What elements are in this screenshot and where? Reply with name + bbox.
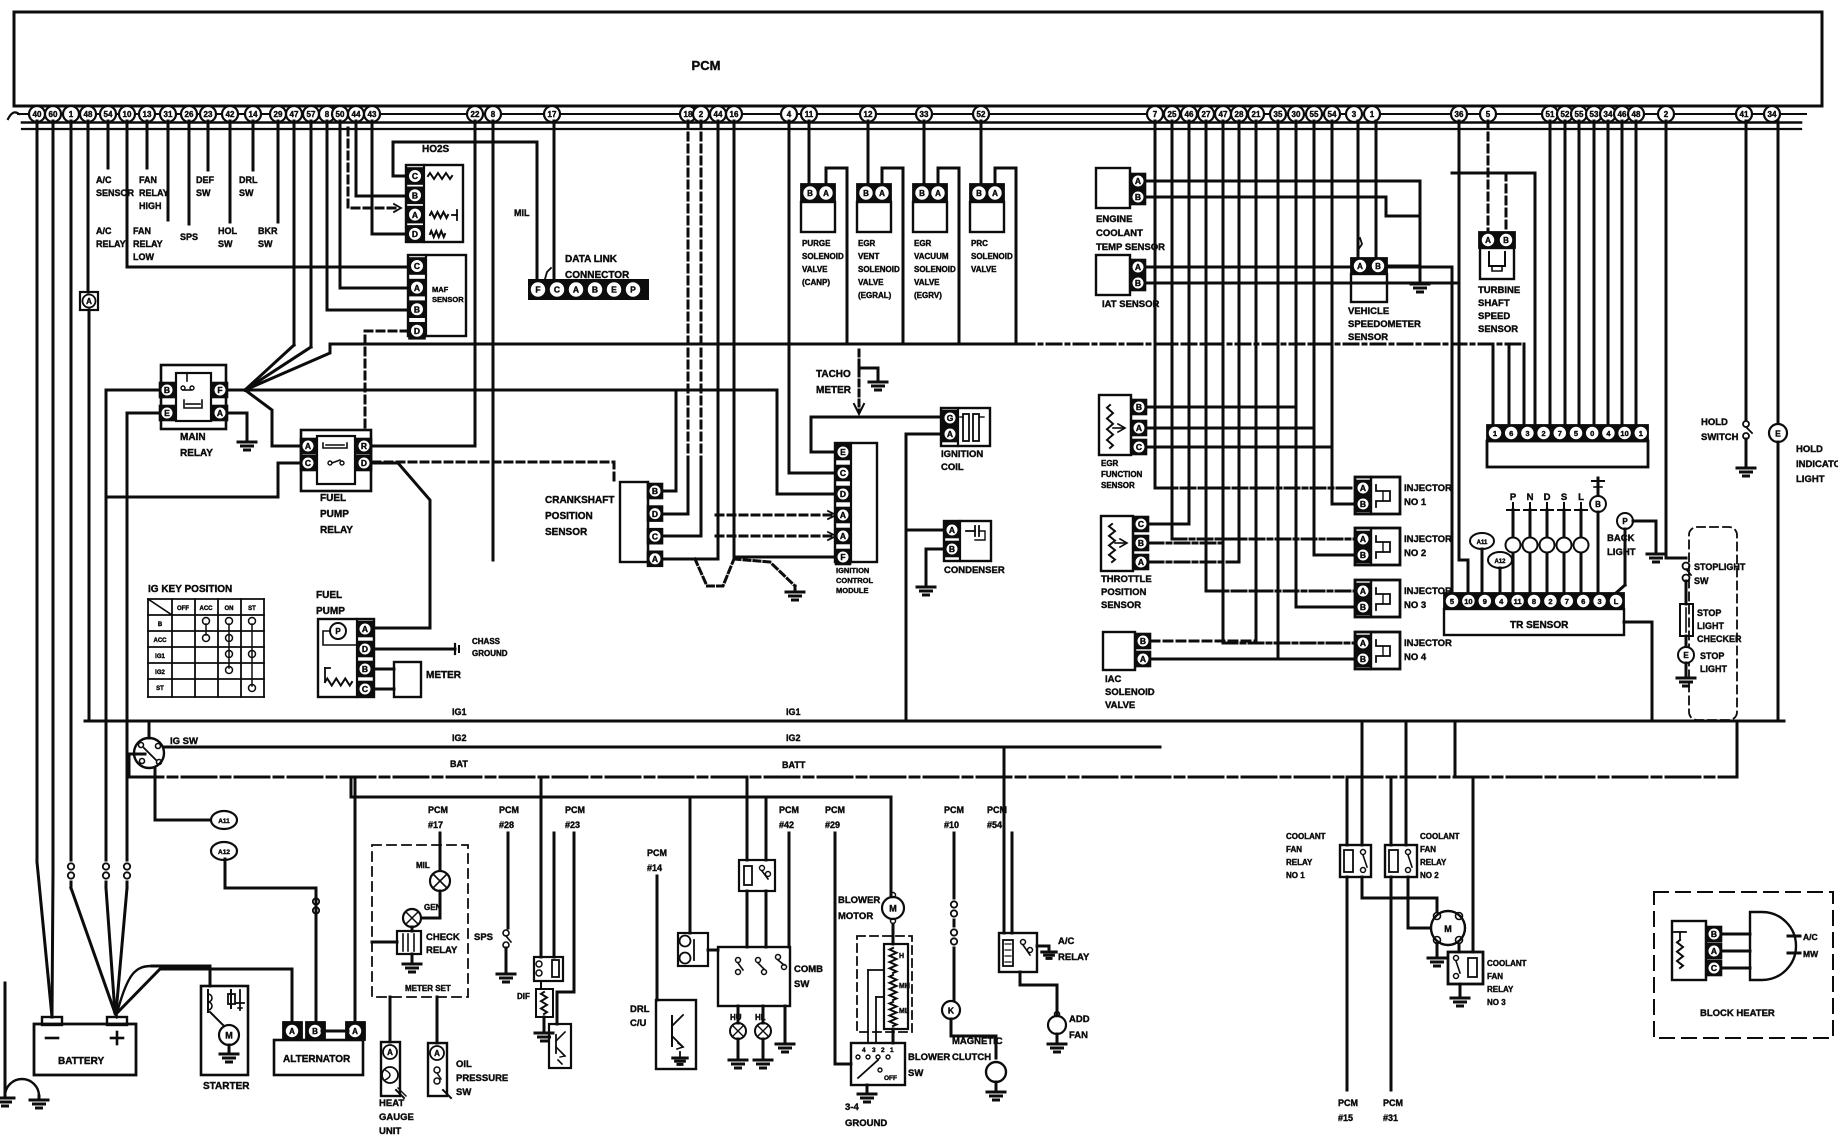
svg-text:ACC: ACC [200, 606, 214, 612]
svg-text:SW: SW [218, 239, 233, 249]
wire IG SW down to A11 [155, 769, 212, 820]
PCM pin 23 [200, 106, 216, 122]
wire injector 3 B feed [1296, 121, 1355, 607]
svg-text:B: B [1360, 499, 1366, 509]
PCM pin 35 [1270, 106, 1286, 122]
solenoid valve PURGE [801, 184, 835, 202]
coolant fan relay no3 [1448, 952, 1483, 984]
svg-text:C/U: C/U [630, 1018, 647, 1029]
svg-text:SW: SW [196, 188, 211, 198]
svg-text:D: D [362, 644, 368, 654]
svg-text:29: 29 [274, 110, 283, 119]
wire P contact down [1624, 529, 1627, 585]
svg-text:B: B [1360, 654, 1366, 664]
svg-text:BATTERY: BATTERY [58, 1056, 104, 1067]
svg-text:A: A [289, 1027, 295, 1036]
wire mid relay feeds [746, 777, 749, 860]
svg-text:A: A [573, 285, 579, 295]
svg-text:27: 27 [1202, 110, 1211, 119]
PCM pin 2 [1658, 106, 1674, 122]
svg-text:C: C [1136, 442, 1142, 452]
injector NO 1 [1355, 477, 1400, 514]
wire PCM10 down to K [953, 833, 956, 898]
wire blower motor to resistors [892, 924, 895, 944]
TR sensor lower connector [1444, 593, 1624, 609]
wire pin60 down [52, 121, 55, 872]
svg-text:E: E [164, 408, 170, 418]
PCM pin 47 [286, 106, 302, 122]
solenoid valve PRC [970, 184, 1004, 202]
starter [201, 986, 248, 1075]
svg-text:EGR: EGR [914, 239, 932, 248]
svg-text:PCM: PCM [779, 805, 799, 815]
svg-text:VALVE: VALVE [802, 265, 828, 274]
wire CKP B up to 390 line [663, 390, 676, 491]
svg-text:C: C [412, 171, 418, 181]
PNDSL contact D [1546, 510, 1549, 537]
wire P to backlight ground [1633, 521, 1656, 552]
svg-text:FAN: FAN [1286, 845, 1302, 854]
svg-text:SPS: SPS [474, 932, 493, 943]
svg-text:1: 1 [69, 110, 74, 119]
PCM module box [14, 12, 1822, 106]
svg-text:C: C [362, 684, 368, 694]
svg-text:RELAY: RELAY [1058, 952, 1090, 963]
PCM pin 27 [1198, 106, 1214, 122]
svg-text:48: 48 [84, 110, 93, 119]
svg-text:3: 3 [1598, 597, 1602, 606]
wire pin8 down [492, 121, 495, 560]
svg-text:TURBINE: TURBINE [1478, 285, 1520, 296]
svg-text:HOLD: HOLD [1796, 444, 1823, 455]
PCM pin 25 [1164, 106, 1180, 122]
PCM pin 54 [100, 106, 116, 122]
svg-text:A: A [652, 554, 658, 564]
svg-text:LIGHT: LIGHT [1700, 664, 1727, 674]
PCM pin 16 [726, 106, 742, 122]
svg-text:MAGNETIC: MAGNETIC [952, 1036, 1003, 1047]
svg-text:0: 0 [1590, 429, 1594, 438]
svg-text:A11: A11 [1477, 540, 1488, 546]
svg-text:FAN: FAN [139, 175, 157, 185]
PCM pin 13 [139, 106, 155, 122]
svg-text:A/C: A/C [96, 226, 112, 236]
wire main relay A to ground [227, 413, 247, 440]
wire VSS B to ground drop [1387, 265, 1420, 268]
svg-text:DRL: DRL [239, 175, 258, 185]
wire 2-pin box feed [689, 797, 692, 933]
wire F long horizontal 390 [245, 389, 777, 392]
svg-text:1: 1 [1639, 429, 1643, 438]
fuel pump relay pin C [301, 456, 316, 471]
PCM pin 46 [1181, 106, 1197, 122]
svg-text:NO 1: NO 1 [1404, 497, 1427, 508]
fuel pump relay pin A [301, 439, 316, 454]
PCM pin 53 [1586, 106, 1602, 122]
key table contacts ON column [226, 618, 233, 625]
svg-text:6: 6 [1509, 429, 1513, 438]
svg-text:G: G [947, 413, 954, 423]
ellipse connector A12 [1488, 552, 1512, 568]
svg-text:ST: ST [248, 606, 256, 612]
wire pin3 to VSS A [1357, 121, 1360, 258]
svg-text:PUMP: PUMP [316, 606, 345, 617]
svg-text:B: B [1138, 538, 1144, 548]
stop light checker fuse [1680, 604, 1693, 636]
svg-text:B: B [1135, 192, 1141, 202]
svg-text:INJECTOR: INJECTOR [1404, 483, 1452, 494]
alternator pin B [306, 1022, 325, 1040]
wire condenser A to IG1 drop [906, 529, 944, 532]
svg-text:35: 35 [1274, 110, 1283, 119]
wire F to pin47 drop [245, 345, 294, 390]
fuel pump relay [301, 430, 371, 491]
wire IG SW up to IG1 [148, 721, 151, 738]
svg-text:PCM: PCM [944, 805, 964, 815]
svg-text:NO 1: NO 1 [1286, 871, 1305, 880]
key table contacts ACC column [203, 618, 210, 625]
svg-text:MODULE: MODULE [836, 586, 869, 595]
starter ground [228, 1045, 231, 1052]
svg-text:C: C [652, 531, 658, 541]
wire A12 down and right to alternator B [225, 859, 316, 888]
svg-text:A: A [947, 429, 953, 439]
wire PCM14 down to DRL [656, 876, 659, 1000]
PCM pin 29 [270, 106, 286, 122]
svg-text:E: E [1775, 429, 1781, 439]
svg-text:OIL: OIL [456, 1059, 472, 1070]
svg-text:21: 21 [1252, 110, 1261, 119]
wire ICM F left [734, 556, 835, 559]
solenoid valve EGR [913, 184, 947, 202]
svg-text:1: 1 [1493, 429, 1497, 438]
wire dif resistor to ground [543, 1017, 546, 1031]
wire alternator A feed [117, 969, 292, 1023]
svg-text:16: 16 [730, 110, 739, 119]
wire heat gauge up to meter set [389, 997, 392, 1042]
fuel pump relay pin R [357, 439, 372, 454]
svg-text:28: 28 [1235, 110, 1244, 119]
wire IG SW left terminal to BAT start [129, 754, 145, 777]
dashed wire TSS B up to 173 line [1505, 173, 1508, 232]
ignition coil [941, 408, 990, 446]
wire resistor bottom to blower sw [892, 1029, 895, 1043]
condenser [944, 521, 991, 561]
wire injector 1 B feed [1332, 121, 1355, 504]
svg-text:ON: ON [225, 606, 234, 612]
svg-text:CONDENSER: CONDENSER [944, 565, 1005, 576]
svg-text:A/C: A/C [96, 175, 112, 185]
svg-text:BLOWER: BLOWER [838, 895, 880, 906]
heat gauge unit [381, 1042, 400, 1096]
meter set dashed box [372, 845, 468, 997]
wire TPS C to pin46 [1149, 523, 1189, 526]
svg-text:RELAY: RELAY [96, 239, 126, 249]
svg-text:34: 34 [1604, 110, 1613, 119]
PCM pin 33 [916, 106, 932, 122]
wire IAC A to injector4 B and pin35 [1151, 658, 1355, 661]
svg-text:B: B [362, 664, 368, 674]
wire pin44 to HO2S B [356, 121, 406, 196]
PCM pin 51 [1542, 106, 1558, 122]
dif transistor box [549, 1024, 571, 1068]
svg-text:R: R [361, 441, 367, 451]
svg-text:D: D [414, 326, 420, 336]
wire pin35 vertical to IAC A net [1277, 121, 1280, 659]
wire injector 1 A feed [1155, 487, 1355, 490]
wire check relay left [372, 941, 397, 944]
svg-text:(EGRAL): (EGRAL) [858, 291, 892, 300]
PCM pin 40 [29, 106, 45, 122]
svg-text:P: P [630, 285, 636, 295]
wire relay2 out to fan motor [1408, 877, 1432, 928]
PCM pin 52 [973, 106, 989, 122]
wire pin to valve PURGE B [808, 121, 811, 184]
svg-text:A: A [387, 1048, 393, 1057]
svg-text:PUMP: PUMP [320, 509, 349, 520]
PCM pin 14 [245, 106, 261, 122]
svg-text:F: F [217, 385, 222, 395]
svg-text:GAUGE: GAUGE [379, 1112, 414, 1123]
svg-text:SW: SW [1694, 576, 1709, 586]
svg-text:A: A [1360, 586, 1366, 596]
wire pin54 to A/C sensor label [107, 121, 110, 168]
IG1 extension to hold indicator drop [1737, 720, 1784, 723]
PCM pin 1 [63, 106, 79, 122]
svg-text:BKR: BKR [258, 226, 278, 236]
backlight ground [1647, 553, 1665, 556]
svg-text:VALVE: VALVE [858, 278, 884, 287]
PCM pin 41 [1736, 106, 1752, 122]
svg-text:12: 12 [864, 110, 873, 119]
svg-text:SENSOR: SENSOR [1101, 600, 1141, 611]
wire injector 2 B feed [1314, 121, 1355, 555]
svg-text:IGNITION: IGNITION [941, 449, 983, 460]
svg-text:SW: SW [794, 979, 809, 990]
block heater pins [1705, 925, 1707, 977]
wire injector 3 A feed [1206, 590, 1355, 593]
wire relay1 to PCM15 [1346, 877, 1349, 1090]
svg-text:UNIT: UNIT [379, 1126, 401, 1136]
wire pin2b down to stoplight sw [1666, 121, 1686, 558]
PCM pin 54 [1324, 106, 1340, 122]
IAT sensor [1096, 255, 1130, 295]
MIL bulb [430, 871, 450, 891]
PCM pin 47 [1215, 106, 1231, 122]
svg-text:#42: #42 [779, 820, 794, 830]
svg-text:PCM: PCM [1383, 1098, 1403, 1108]
alternator pin A left [283, 1022, 302, 1040]
svg-text:D: D [412, 229, 418, 239]
svg-text:DATA LINK: DATA LINK [565, 254, 618, 265]
svg-text:#23: #23 [565, 820, 580, 830]
PCM pin 44 [710, 106, 726, 122]
svg-text:A: A [1135, 176, 1141, 186]
svg-text:17: 17 [548, 110, 557, 119]
svg-text:18: 18 [684, 110, 693, 119]
solenoid valve EGR [857, 184, 891, 202]
wire IAT A right to TR drop [1146, 267, 1452, 593]
svg-text:B: B [1503, 236, 1509, 245]
svg-text:IG2: IG2 [452, 733, 467, 743]
svg-text:B: B [592, 285, 598, 295]
svg-text:LOW: LOW [133, 252, 154, 262]
svg-text:VENT: VENT [858, 252, 879, 261]
svg-text:EGR: EGR [858, 239, 876, 248]
svg-text:SOLENOID: SOLENOID [971, 252, 1013, 261]
svg-text:BLOWER: BLOWER [908, 1052, 950, 1063]
svg-text:54: 54 [104, 110, 113, 119]
wire pin to valve EGR B [923, 121, 926, 184]
svg-text:HOL: HOL [218, 226, 238, 236]
wire pin13 to fan relay high label [146, 121, 149, 168]
svg-text:ENGINE: ENGINE [1096, 214, 1132, 225]
svg-text:55: 55 [1310, 110, 1319, 119]
svg-text:NO 3: NO 3 [1404, 600, 1426, 611]
data link connector [529, 280, 648, 299]
svg-text:RELAY: RELAY [133, 239, 163, 249]
svg-text:FAN: FAN [133, 226, 151, 236]
PCM pin 48 [1628, 106, 1644, 122]
svg-text:7: 7 [1565, 597, 1569, 606]
wire TR lower right to IG1 [1624, 622, 1652, 721]
svg-text:C: C [414, 261, 420, 271]
svg-text:34: 34 [1768, 110, 1777, 119]
wire pin23 to def sw label [207, 121, 210, 170]
svg-text:HU: HU [730, 1013, 742, 1022]
svg-text:STOPLIGHT: STOPLIGHT [1694, 562, 1746, 572]
svg-text:C: C [305, 458, 311, 468]
wire stoplight sw to checker [1685, 581, 1688, 604]
wire BAT to relay3 [1472, 777, 1475, 952]
wire pin1 down [70, 121, 73, 860]
svg-text:B: B [863, 189, 869, 198]
svg-text:H: H [899, 953, 904, 960]
svg-text:COOLANT: COOLANT [1286, 832, 1326, 841]
svg-text:B: B [1140, 636, 1146, 646]
svg-text:TACHO: TACHO [816, 369, 851, 380]
PCM pin 8 [485, 106, 501, 122]
wire TPS B to pin47 [1149, 542, 1223, 545]
svg-text:MAF: MAF [432, 285, 449, 294]
wire EGR fn A to pin55 vertical [1147, 427, 1314, 430]
wire fuel pump D to chassis ground [374, 648, 455, 651]
svg-text:NO 4: NO 4 [1404, 652, 1427, 663]
svg-text:CLUTCH: CLUTCH [952, 1052, 991, 1063]
PCM pin 60 [45, 106, 61, 122]
SPS switch contact [503, 930, 509, 936]
svg-text:SENSOR: SENSOR [545, 527, 588, 538]
svg-text:METER: METER [816, 385, 852, 396]
svg-text:2: 2 [881, 1047, 885, 1054]
wire pin31 to fan relay low label [167, 121, 170, 220]
svg-text:E: E [1683, 651, 1689, 660]
svg-text:C: C [1711, 963, 1717, 973]
bus drops to TR upper [1492, 344, 1495, 425]
svg-text:IAT SENSOR: IAT SENSOR [1102, 299, 1159, 310]
svg-text:PCM: PCM [825, 805, 845, 815]
svg-text:ALTERNATOR: ALTERNATOR [283, 1054, 351, 1065]
wire main relay F fan-out node [227, 389, 245, 392]
PCM pin 21 [1248, 106, 1264, 122]
svg-text:52: 52 [1561, 110, 1570, 119]
wire relay2 feeds from rails [1390, 777, 1393, 845]
wire mid relay outputs [746, 891, 749, 947]
svg-text:RELAY: RELAY [180, 448, 213, 459]
svg-text:47: 47 [290, 110, 299, 119]
GEN bulb [403, 909, 421, 927]
injector NO 2 [1355, 528, 1400, 565]
wire injector 2 A feed [1172, 538, 1355, 541]
svg-text:30: 30 [1292, 110, 1301, 119]
svg-text:55: 55 [1575, 110, 1584, 119]
svg-text:31: 31 [164, 110, 173, 119]
svg-text:SWITCH: SWITCH [1701, 432, 1739, 443]
throttle position sensor [1101, 516, 1133, 571]
wire IAT B right [1146, 282, 1459, 285]
svg-text:A12: A12 [218, 849, 230, 856]
svg-text:IG1: IG1 [786, 707, 801, 717]
svg-text:ML: ML [899, 1008, 910, 1015]
PNDSL contact L [1580, 510, 1583, 537]
alternator [274, 1040, 363, 1075]
bus wire y344 [330, 343, 1020, 346]
wire PCM54 down to AC relay [1011, 833, 1014, 933]
wire pin4 to ICM C [789, 121, 835, 473]
PCM pin 42 [222, 106, 238, 122]
PCM pin 26 [181, 106, 197, 122]
wire hold indicator down to IG1 end [1777, 442, 1780, 721]
PCM pin 52 [1557, 106, 1573, 122]
svg-text:D: D [652, 509, 658, 519]
svg-text:3: 3 [1352, 110, 1357, 119]
svg-text:SPEEDOMETER: SPEEDOMETER [1348, 319, 1421, 330]
relay3 ground [1459, 984, 1462, 996]
AC relay box [999, 933, 1037, 972]
wire PCM23 down to transistor [557, 833, 574, 1024]
svg-text:SENSOR: SENSOR [1348, 332, 1388, 343]
svg-text:#28: #28 [499, 820, 514, 830]
wire relay1 feeds from rails [1346, 777, 1349, 845]
svg-text:SW: SW [908, 1068, 923, 1079]
wire pin40 down [36, 121, 39, 862]
coolant fan motor ground [1436, 943, 1439, 956]
wire stop light to ground [1685, 663, 1688, 676]
svg-text:B: B [414, 304, 420, 314]
wire fuel pump B to meter [374, 668, 394, 671]
svg-text:N: N [1527, 492, 1534, 503]
svg-text:2: 2 [699, 110, 704, 119]
pin row lower line 1 [22, 121, 1801, 124]
wire CKP C to pin2 [663, 460, 701, 536]
svg-text:53: 53 [1590, 110, 1599, 119]
svg-text:M: M [225, 1031, 233, 1041]
PCM pin 22 [467, 106, 483, 122]
coolant fan motor [1431, 911, 1465, 945]
svg-text:7: 7 [1558, 429, 1562, 438]
svg-text:CRANKSHAFT: CRANKSHAFT [545, 495, 614, 506]
svg-text:VEHICLE: VEHICLE [1348, 306, 1389, 317]
svg-text:SENSOR: SENSOR [1101, 481, 1135, 490]
ground right of VSS [1411, 283, 1429, 286]
wires pins 51-48 down to TR upper [1549, 121, 1552, 425]
svg-text:INDICATOR: INDICATOR [1796, 459, 1838, 470]
svg-text:44: 44 [352, 110, 361, 119]
PNDSL contact N [1529, 510, 1532, 537]
svg-text:26: 26 [185, 110, 194, 119]
wire main relay B to battery feed [106, 390, 160, 497]
svg-text:C: C [840, 468, 846, 478]
